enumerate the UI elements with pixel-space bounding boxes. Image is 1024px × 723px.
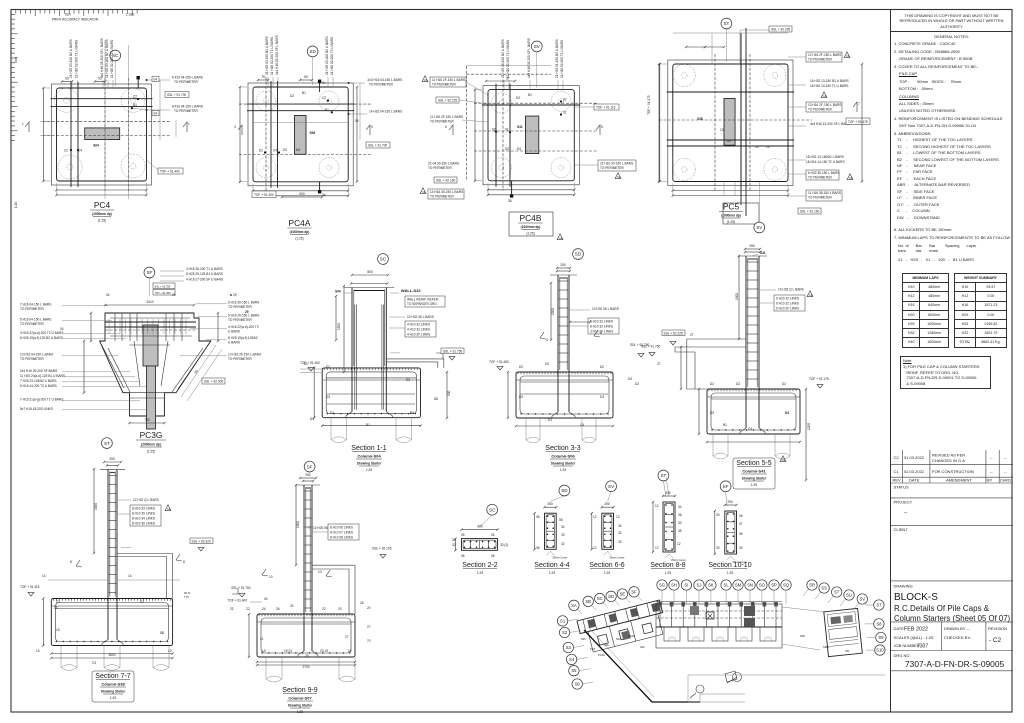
svg-text:TO PERIMETER: TO PERIMETER bbox=[20, 307, 45, 311]
svg-text:TOF + 91.400: TOF + 91.400 bbox=[160, 170, 180, 174]
svg-text:1:25: 1:25 bbox=[477, 571, 483, 575]
svg-text:60: 60 bbox=[304, 75, 308, 79]
svg-text:REVISION: REVISION bbox=[988, 626, 1007, 631]
svg-text:C2: C2 bbox=[424, 78, 428, 82]
svg-text:PC3G: PC3G bbox=[628, 634, 635, 638]
svg-text:SSL + 91.700: SSL + 91.700 bbox=[368, 144, 388, 148]
svg-text:DATE: DATE bbox=[909, 478, 920, 483]
svg-text:06: 06 bbox=[739, 514, 743, 518]
svg-text:16 H16 14-150 T1 U BARS: 16 H16 14-150 T1 U BARS bbox=[810, 84, 848, 88]
svg-text:01: 01 bbox=[563, 111, 567, 115]
svg-text:38: 38 bbox=[508, 199, 512, 203]
svg-text:S02: S02 bbox=[640, 645, 645, 649]
svg-text:D2: D2 bbox=[635, 382, 639, 386]
svg-text:26: 26 bbox=[360, 601, 364, 605]
svg-text:5 H16 04-150 L BARS: 5 H16 04-150 L BARS bbox=[20, 318, 51, 322]
svg-text:S06: S06 bbox=[604, 643, 609, 647]
svg-text:(1:25): (1:25) bbox=[295, 237, 303, 241]
svg-text:TO PERIMETER: TO PERIMETER bbox=[808, 108, 833, 112]
svg-text:Section 3-3: Section 3-3 bbox=[545, 445, 581, 452]
svg-text:8 H10 32 LINKS: 8 H10 32 LINKS bbox=[590, 325, 613, 329]
svg-text:93: 93 bbox=[65, 77, 69, 81]
svg-text:11 H16 2F-150 L BARS: 11 H16 2F-150 L BARS bbox=[430, 115, 463, 119]
svg-text:TOF + 91.475: TOF + 91.475 bbox=[647, 95, 651, 115]
svg-text:TOF + 91.400: TOF + 91.400 bbox=[227, 599, 247, 603]
svg-text:Column-S41: Column-S41 bbox=[742, 469, 766, 474]
svg-text:02: 02 bbox=[563, 98, 567, 102]
svg-text:ST: ST bbox=[660, 473, 666, 478]
svg-text:740: 740 bbox=[144, 418, 150, 422]
svg-text:TOF + 91.115: TOF + 91.115 bbox=[596, 106, 616, 110]
svg-text:21 H25 26-150 B2 U BARS: 21 H25 26-150 B2 U BARS bbox=[501, 39, 505, 78]
svg-text:D2: D2 bbox=[283, 148, 287, 152]
svg-text:21 H25 03-150 B2 U BARS: 21 H25 03-150 B2 U BARS bbox=[69, 39, 73, 78]
svg-text:(2000mm dp): (2000mm dp) bbox=[92, 212, 112, 216]
svg-text:Column-S06: Column-S06 bbox=[551, 454, 575, 459]
svg-text:3: 3 bbox=[371, 125, 373, 129]
svg-text:12 H32 Q L BARS: 12 H32 Q L BARS bbox=[133, 498, 159, 502]
svg-text:C2: C2 bbox=[823, 94, 827, 98]
svg-text:30: 30 bbox=[716, 513, 720, 517]
svg-text:--: -- bbox=[967, 626, 970, 631]
svg-text:12: 12 bbox=[593, 546, 597, 550]
svg-text:8 H10 34 LINKS: 8 H10 34 LINKS bbox=[132, 517, 155, 521]
svg-text:PC4B: PC4B bbox=[520, 213, 542, 223]
svg-text:B1: B1 bbox=[723, 423, 727, 427]
svg-text:10 H32 35 L BARS: 10 H32 35 L BARS bbox=[407, 315, 434, 319]
svg-text:23: 23 bbox=[766, 145, 770, 149]
svg-text:27: 27 bbox=[657, 362, 661, 366]
svg-text:32: 32 bbox=[452, 543, 456, 547]
svg-text:14: 14 bbox=[42, 574, 46, 578]
svg-text:7 H16 21(a-g)-200 T1 U BARS: 7 H16 21(a-g)-200 T1 U BARS bbox=[20, 398, 63, 402]
svg-text:01: 01 bbox=[505, 128, 509, 132]
svg-text:TOF + 91.115: TOF + 91.115 bbox=[20, 585, 40, 589]
svg-text:70: 70 bbox=[367, 639, 371, 643]
svg-text:250: 250 bbox=[560, 263, 566, 267]
svg-text:29: 29 bbox=[172, 293, 176, 297]
svg-text:D2: D2 bbox=[516, 96, 520, 100]
svg-text:Section 10-10: Section 10-10 bbox=[708, 562, 751, 569]
svg-text:D2: D2 bbox=[290, 94, 294, 98]
svg-text:PC4A: PC4A bbox=[289, 218, 311, 228]
svg-text:8 H25 19(a-f)-125/62: 8 H25 19(a-f)-125/62 bbox=[228, 336, 258, 340]
svg-text:REVISED AS PER: REVISED AS PER bbox=[932, 453, 965, 458]
svg-text:B1: B1 bbox=[528, 93, 532, 97]
svg-text:1500: 1500 bbox=[551, 308, 555, 315]
svg-text:1500: 1500 bbox=[94, 503, 98, 510]
svg-text:TOF + 91.475: TOF + 91.475 bbox=[848, 120, 868, 124]
svg-text:19: 19 bbox=[262, 649, 266, 653]
svg-text:4: 4 bbox=[546, 338, 548, 342]
svg-text:11 H25 20(a-k)-125 B1 U BARS: 11 H25 20(a-k)-125 B1 U BARS bbox=[20, 374, 65, 378]
svg-text:DRAWING: DRAWING bbox=[894, 584, 913, 589]
svg-text:13: 13 bbox=[168, 649, 172, 653]
svg-text:16 H32 13-150 B1 U BARS: 16 H32 13-150 B1 U BARS bbox=[810, 79, 849, 83]
svg-text:E2: E2 bbox=[259, 149, 263, 153]
svg-text:1: 1 bbox=[188, 122, 190, 126]
svg-text:- C2: - C2 bbox=[989, 637, 1002, 644]
svg-text:CHANGES IN G.A: CHANGES IN G.A bbox=[932, 458, 965, 463]
svg-text:Section 7-7: Section 7-7 bbox=[95, 673, 131, 680]
svg-text:FEB 2022: FEB 2022 bbox=[904, 627, 928, 633]
svg-text:4x4 H16 03-200 SF L BARS: 4x4 H16 03-200 SF L BARS bbox=[275, 35, 279, 75]
svg-text:Section 4-4: Section 4-4 bbox=[534, 562, 570, 569]
svg-text:D2: D2 bbox=[710, 382, 714, 386]
svg-text:30: 30 bbox=[739, 546, 743, 550]
svg-text:D3: D3 bbox=[600, 395, 604, 399]
svg-text:SB: SB bbox=[585, 599, 591, 604]
svg-text:02: 02 bbox=[492, 128, 496, 132]
svg-text:5 H25 25-125 B1 U BARS: 5 H25 25-125 B1 U BARS bbox=[186, 272, 223, 276]
svg-text:S41: S41 bbox=[517, 125, 523, 129]
svg-text:D3: D3 bbox=[326, 395, 330, 399]
svg-text:04: 04 bbox=[355, 119, 359, 123]
svg-text:SD: SD bbox=[608, 594, 614, 599]
svg-text:4 H10 2F LINKS: 4 H10 2F LINKS bbox=[407, 333, 430, 337]
svg-text:SK: SK bbox=[708, 583, 714, 588]
svg-text:04: 04 bbox=[322, 81, 326, 85]
svg-text:8 H10 35 LINKS: 8 H10 35 LINKS bbox=[132, 512, 155, 516]
svg-text:31.03.2022: 31.03.2022 bbox=[904, 455, 925, 460]
svg-text:24: 24 bbox=[262, 607, 266, 611]
svg-text:Showing Starter: Showing Starter bbox=[101, 690, 126, 694]
svg-text:S1: S1 bbox=[560, 618, 566, 623]
svg-text:06: 06 bbox=[491, 554, 495, 558]
svg-text:SCALES (@A1) - 1:25: SCALES (@A1) - 1:25 bbox=[894, 635, 935, 640]
svg-text:7: 7 bbox=[858, 102, 860, 106]
svg-text:7307-A-D-FN-DR-S-09005: 7307-A-D-FN-DR-S-09005 bbox=[905, 659, 1004, 669]
svg-text:5x7 H16 18-200 LINKS: 5x7 H16 18-200 LINKS bbox=[20, 407, 53, 411]
svg-text:8 #16 04-150 L BARS: 8 #16 04-150 L BARS bbox=[172, 105, 203, 109]
svg-text:4x4 H16 03-200 SF L BARS: 4x4 H16 03-200 SF L BARS bbox=[100, 38, 104, 78]
svg-text:1:25: 1:25 bbox=[751, 483, 757, 487]
svg-text:12: 12 bbox=[593, 515, 597, 519]
svg-text:1500: 1500 bbox=[735, 293, 739, 300]
svg-text:2410: 2410 bbox=[146, 300, 153, 304]
svg-text:TO SEPARATE DRG.: TO SEPARATE DRG. bbox=[407, 302, 438, 306]
svg-text:S3: S3 bbox=[566, 645, 572, 650]
svg-text:C4: C4 bbox=[580, 423, 584, 427]
svg-text:24: 24 bbox=[290, 604, 294, 608]
svg-text:SSL + 91.750: SSL + 91.750 bbox=[641, 345, 661, 349]
svg-text:D2: D2 bbox=[782, 382, 786, 386]
svg-text:8: 8 bbox=[70, 560, 72, 564]
svg-text:SE: SE bbox=[620, 592, 626, 597]
svg-text:ST: ST bbox=[834, 590, 840, 595]
svg-text:C4: C4 bbox=[748, 427, 752, 431]
svg-text:30: 30 bbox=[716, 546, 720, 550]
svg-text:TO PERIMETER: TO PERIMETER bbox=[20, 322, 45, 326]
svg-text:05: 05 bbox=[491, 533, 495, 537]
svg-text:20: 20 bbox=[338, 607, 342, 611]
svg-text:TOF + 91.450: TOF + 91.450 bbox=[300, 361, 320, 365]
svg-text:S04: S04 bbox=[581, 637, 586, 641]
svg-text:14: 14 bbox=[755, 145, 759, 149]
svg-text:7307: 7307 bbox=[917, 644, 928, 650]
svg-text:21 H25 03-400 B2 U BARS: 21 H25 03-400 B2 U BARS bbox=[325, 36, 329, 75]
svg-text:4x4 H16 03-200 SF L BARS: 4x4 H16 03-200 SF L BARS bbox=[527, 38, 531, 78]
svg-text:Section 5-5: Section 5-5 bbox=[736, 460, 772, 467]
svg-text:S5: S5 bbox=[571, 668, 577, 673]
svg-text:11 H16 2F-150 L BARS: 11 H16 2F-150 L BARS bbox=[432, 78, 465, 82]
svg-text:21-04 30-150 L BARS: 21-04 30-150 L BARS bbox=[428, 162, 459, 166]
svg-text:10 H16 04-150 L BARS: 10 H16 04-150 L BARS bbox=[20, 353, 53, 357]
svg-text:6 #16 04-150 L BARS: 6 #16 04-150 L BARS bbox=[172, 76, 203, 80]
svg-text:SV: SV bbox=[860, 597, 866, 602]
svg-text:ST: ST bbox=[104, 441, 110, 446]
svg-text:SR: SR bbox=[809, 583, 815, 588]
svg-text:25: 25 bbox=[305, 654, 309, 658]
svg-text:8 H10 07 LINKS: 8 H10 07 LINKS bbox=[330, 531, 353, 535]
svg-text:(1000mm dp): (1000mm dp) bbox=[521, 225, 541, 229]
svg-text:DRAWN BY: DRAWN BY bbox=[944, 626, 966, 631]
svg-text:SU: SU bbox=[846, 593, 852, 598]
svg-text:C2: C2 bbox=[559, 236, 563, 240]
svg-text:26: 26 bbox=[276, 607, 280, 611]
svg-text:12 H16 2F-150 L BARS: 12 H16 2F-150 L BARS bbox=[808, 53, 841, 57]
svg-text:U BARS: U BARS bbox=[228, 330, 240, 334]
svg-text:21: 21 bbox=[260, 637, 264, 641]
svg-text:--: -- bbox=[1004, 455, 1007, 460]
svg-text:1:25: 1:25 bbox=[110, 696, 116, 700]
svg-text:SSL + 92.500: SSL + 92.500 bbox=[204, 380, 224, 384]
svg-text:8 H10 06 LINKS: 8 H10 06 LINKS bbox=[330, 526, 353, 530]
svg-text:04: 04 bbox=[154, 112, 158, 116]
svg-text:12: 12 bbox=[655, 546, 659, 550]
svg-text:1:25: 1:25 bbox=[560, 468, 566, 472]
svg-text:C2: C2 bbox=[894, 455, 900, 460]
svg-text:Section 9-9: Section 9-9 bbox=[282, 687, 318, 694]
svg-text:SP: SP bbox=[771, 583, 777, 588]
svg-text:TO PERIMETER: TO PERIMETER bbox=[432, 83, 457, 87]
svg-text:26: 26 bbox=[194, 369, 199, 374]
svg-text:04: 04 bbox=[106, 293, 110, 297]
svg-text:SD: SD bbox=[575, 252, 582, 257]
svg-text:4 H16 22(a-d)-200 T2: 4 H16 22(a-d)-200 T2 bbox=[228, 325, 259, 329]
svg-text:29: 29 bbox=[233, 293, 237, 297]
svg-text:29: 29 bbox=[245, 310, 249, 314]
svg-text:Showing Starter: Showing Starter bbox=[742, 477, 767, 481]
svg-text:900: 900 bbox=[447, 390, 451, 396]
svg-text:C2: C2 bbox=[167, 507, 171, 511]
svg-text:S06: S06 bbox=[310, 131, 316, 135]
svg-text:D3: D3 bbox=[710, 411, 714, 415]
svg-text:D4: D4 bbox=[628, 377, 632, 381]
svg-text:08: 08 bbox=[739, 532, 743, 536]
svg-text:PROJECT: PROJECT bbox=[894, 500, 913, 505]
svg-text:11 H16 02-200 T2 U BARS: 11 H16 02-200 T2 U BARS bbox=[560, 40, 564, 78]
svg-text:1:25: 1:25 bbox=[604, 571, 610, 575]
svg-text:TO PERIMETER: TO PERIMETER bbox=[20, 357, 45, 361]
svg-text:Showing Starter: Showing Starter bbox=[288, 704, 313, 708]
svg-text:C2: C2 bbox=[782, 458, 786, 462]
svg-text:6 H32 35-150 L BARS: 6 H32 35-150 L BARS bbox=[808, 171, 839, 175]
svg-text:SSL + 92.225: SSL + 92.225 bbox=[771, 28, 791, 32]
svg-text:TO PERIMETER: TO PERIMETER bbox=[430, 120, 455, 124]
svg-text:(1:25): (1:25) bbox=[526, 232, 534, 236]
svg-text:SF: SF bbox=[307, 464, 313, 469]
svg-text:21 H25 03-150 B1 U BARS: 21 H25 03-150 B1 U BARS bbox=[265, 36, 269, 75]
svg-text:07: 07 bbox=[739, 522, 743, 526]
svg-text:D4: D4 bbox=[310, 417, 314, 421]
svg-text:SM: SM bbox=[735, 583, 742, 588]
svg-text:05: 05 bbox=[461, 533, 465, 537]
svg-text:14: 14 bbox=[727, 139, 731, 143]
svg-text:5cm: 5cm bbox=[65, 13, 71, 17]
svg-text:11 H16 02-200 T1 U BARS: 11 H16 02-200 T1 U BARS bbox=[75, 40, 79, 78]
svg-text:15: 15 bbox=[160, 631, 164, 635]
svg-text:11 H16 02-200 T1 U BARS: 11 H16 02-200 T1 U BARS bbox=[270, 37, 274, 75]
svg-text:2x3 H16 04-150 L BARS: 2x3 H16 04-150 L BARS bbox=[368, 78, 403, 82]
svg-text:5: 5 bbox=[601, 125, 603, 129]
svg-text:04: 04 bbox=[60, 327, 64, 331]
svg-text:14 H16 30-150 L BARS: 14 H16 30-150 L BARS bbox=[430, 190, 463, 194]
svg-text:D2: D2 bbox=[140, 600, 144, 604]
svg-text:10: 10 bbox=[269, 575, 273, 579]
svg-text:22: 22 bbox=[322, 607, 326, 611]
svg-text:B1: B1 bbox=[366, 423, 370, 427]
svg-text:D4: D4 bbox=[517, 147, 521, 151]
svg-text:5: 5 bbox=[445, 125, 447, 129]
svg-text:36: 36 bbox=[678, 513, 682, 517]
svg-text:4 H16 22(a-d)-200 T2 U BARS: 4 H16 22(a-d)-200 T2 U BARS bbox=[20, 331, 63, 335]
svg-text:93: 93 bbox=[98, 77, 102, 81]
svg-text:8 H10 33 LINKS: 8 H10 33 LINKS bbox=[132, 507, 155, 511]
svg-text:R.C.Details Of Pile Caps &: R.C.Details Of Pile Caps & bbox=[894, 604, 990, 613]
svg-text:(2000mm dp): (2000mm dp) bbox=[141, 443, 161, 447]
svg-text:D2: D2 bbox=[600, 365, 604, 369]
svg-text:9 H10 2F LINKS: 9 H10 2F LINKS bbox=[776, 307, 799, 311]
svg-text:04: 04 bbox=[154, 78, 158, 82]
svg-text:34: 34 bbox=[618, 524, 622, 528]
svg-text:PC4A: PC4A bbox=[598, 653, 605, 657]
svg-text:2700: 2700 bbox=[302, 665, 309, 669]
svg-text:C4: C4 bbox=[273, 149, 277, 153]
svg-text:4: 4 bbox=[600, 331, 602, 335]
svg-text:35mm Cover: 35mm Cover bbox=[552, 555, 567, 559]
svg-text:33: 33 bbox=[618, 540, 622, 544]
svg-text:C2: C2 bbox=[133, 95, 137, 99]
svg-text:3600: 3600 bbox=[108, 653, 115, 657]
svg-text:35mm Cover: 35mm Cover bbox=[610, 555, 625, 559]
svg-text:SV: SV bbox=[534, 44, 541, 49]
svg-text:S41: S41 bbox=[760, 251, 766, 255]
svg-text:32: 32 bbox=[618, 531, 622, 535]
svg-text:600: 600 bbox=[477, 525, 483, 529]
svg-text:SSL + 92.160: SSL + 92.160 bbox=[800, 210, 820, 214]
svg-text:1:25: 1:25 bbox=[665, 571, 671, 575]
svg-text:TO PERIMETER: TO PERIMETER bbox=[228, 318, 253, 322]
svg-text:SC: SC bbox=[597, 596, 603, 601]
svg-text:13: 13 bbox=[36, 649, 40, 653]
svg-text:5 H16 26-150 L BARS: 5 H16 26-150 L BARS bbox=[228, 314, 259, 318]
svg-text:1:25: 1:25 bbox=[549, 571, 555, 575]
svg-text:18-H16 14-150 T2 U BARS: 18-H16 14-150 T2 U BARS bbox=[806, 160, 845, 164]
svg-text:D3: D3 bbox=[785, 411, 789, 415]
svg-text:14: 14 bbox=[128, 574, 132, 578]
svg-text:250: 250 bbox=[665, 491, 671, 495]
svg-text:6 H16 26-150 L BARS: 6 H16 26-150 L BARS bbox=[228, 301, 259, 305]
svg-text:1500: 1500 bbox=[296, 521, 300, 528]
svg-text:Section 1-1: Section 1-1 bbox=[351, 445, 387, 452]
svg-text:--: -- bbox=[990, 469, 993, 474]
svg-text:33 (2): 33 (2) bbox=[500, 543, 508, 547]
svg-text:02.03.2022: 02.03.2022 bbox=[904, 469, 925, 474]
svg-text:B1: B1 bbox=[325, 108, 329, 112]
svg-text:4 H16 26-200 T1 U BARS: 4 H16 26-200 T1 U BARS bbox=[186, 267, 223, 271]
svg-text:CHECKED BY: CHECKED BY bbox=[944, 635, 970, 640]
svg-text:TYP: TYP bbox=[184, 595, 189, 599]
svg-text:TO PERIMETER: TO PERIMETER bbox=[808, 58, 833, 62]
svg-text:SQ: SQ bbox=[783, 583, 790, 588]
svg-text:1:25: 1:25 bbox=[297, 710, 303, 714]
svg-text:TO PERIMETER: TO PERIMETER bbox=[228, 305, 253, 309]
svg-text:SJ: SJ bbox=[697, 583, 702, 588]
svg-text:SC: SC bbox=[489, 507, 496, 512]
svg-text:D1: D1 bbox=[410, 411, 414, 415]
svg-text:SD: SD bbox=[309, 49, 316, 54]
svg-text:TOF + 91.450: TOF + 91.450 bbox=[155, 291, 172, 295]
svg-text:11 H16 02-200 T1 U BARS: 11 H16 02-200 T1 U BARS bbox=[506, 40, 510, 78]
svg-text:9 H10 32 LINKS: 9 H10 32 LINKS bbox=[776, 302, 799, 306]
svg-text:11 H16 02-200 T2 U BARS: 11 H16 02-200 T2 U BARS bbox=[110, 40, 114, 78]
svg-text:TOF + 91.400: TOF + 91.400 bbox=[254, 193, 274, 197]
svg-text:C2: C2 bbox=[617, 175, 621, 179]
svg-text:22: 22 bbox=[246, 607, 250, 611]
svg-text:22: 22 bbox=[230, 607, 234, 611]
svg-text:10 H32 06 L BARS: 10 H32 06 L BARS bbox=[592, 307, 619, 311]
svg-text:18-H32 13-150/62 L BARS: 18-H32 13-150/62 L BARS bbox=[806, 155, 844, 159]
svg-text:5 H16 24-200 T2 U BARS: 5 H16 24-200 T2 U BARS bbox=[20, 384, 57, 388]
svg-text:BY: BY bbox=[987, 478, 993, 483]
svg-text:04: 04 bbox=[264, 597, 268, 601]
svg-text:8 H10 08 LINKS: 8 H10 08 LINKS bbox=[330, 536, 353, 540]
svg-text:06: 06 bbox=[536, 546, 540, 550]
svg-text:D2: D2 bbox=[519, 365, 523, 369]
svg-text:TO PERIMETER: TO PERIMETER bbox=[808, 176, 833, 180]
svg-text:7 H25 23-125/62 U BARS: 7 H25 23-125/62 U BARS bbox=[20, 379, 57, 383]
svg-text:Column-S38: Column-S38 bbox=[101, 682, 125, 687]
svg-text:06: 06 bbox=[536, 515, 540, 519]
svg-text:SH: SH bbox=[671, 583, 677, 588]
svg-text:S08: S08 bbox=[800, 634, 805, 638]
svg-text:WALL-S32: WALL-S32 bbox=[401, 288, 422, 293]
svg-text:S4: S4 bbox=[569, 657, 575, 662]
svg-text:12: 12 bbox=[677, 542, 681, 546]
svg-text:CLIENT: CLIENT bbox=[894, 527, 909, 532]
svg-text:250: 250 bbox=[727, 500, 733, 504]
svg-text:D2: D2 bbox=[545, 362, 549, 366]
svg-text:SL: SL bbox=[724, 583, 730, 588]
svg-text:21 H16 30-150 L BARS: 21 H16 30-150 L BARS bbox=[600, 162, 633, 166]
svg-text:D2: D2 bbox=[56, 600, 60, 604]
svg-text:TO PERIMETER: TO PERIMETER bbox=[174, 109, 199, 113]
svg-text:900: 900 bbox=[299, 192, 305, 196]
svg-text:B1: B1 bbox=[133, 103, 137, 107]
svg-text:9 H10 32 LINKS: 9 H10 32 LINKS bbox=[776, 297, 799, 301]
svg-text:10 H32 Q L BARS: 10 H32 Q L BARS bbox=[778, 288, 804, 292]
svg-text:SSL + 91.750: SSL + 91.750 bbox=[231, 586, 251, 590]
svg-text:1:25: 1:25 bbox=[727, 571, 733, 575]
svg-text:Column-S07: Column-S07 bbox=[288, 696, 312, 701]
svg-text:S41: S41 bbox=[845, 649, 850, 653]
svg-text:8 H25 19(a-f)-125 B2 U BARS: 8 H25 19(a-f)-125 B2 U BARS bbox=[20, 336, 63, 340]
svg-text:WALL REINF. REFER: WALL REINF. REFER bbox=[407, 298, 439, 302]
svg-text:11 H16 38-150 L BARS: 11 H16 38-150 L BARS bbox=[808, 191, 841, 195]
svg-text:--: -- bbox=[1004, 469, 1007, 474]
svg-text:Section 2-2: Section 2-2 bbox=[462, 562, 498, 569]
